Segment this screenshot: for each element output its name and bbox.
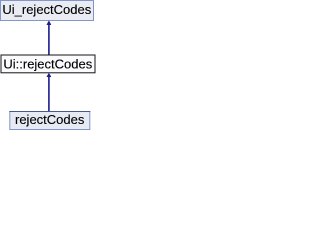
inheritance arrow: Ui::rejectCodes to Ui_rejectCodes: [47, 21, 51, 55]
svg-text:rejectCodes: rejectCodes: [15, 112, 85, 127]
background: [0, 0, 98, 136]
node Ui_rejectCodes (base class box): [1, 1, 94, 21]
node rejectCodes (derived class box): [9, 112, 90, 130]
svg-text:Ui_rejectCodes: Ui_rejectCodes: [2, 2, 91, 17]
inheritance arrow: rejectCodes to Ui::rejectCodes: [47, 73, 51, 111]
svg-text:Ui::rejectCodes: Ui::rejectCodes: [3, 56, 92, 71]
node Ui::rejectCodes (current class box): [1, 55, 95, 73]
